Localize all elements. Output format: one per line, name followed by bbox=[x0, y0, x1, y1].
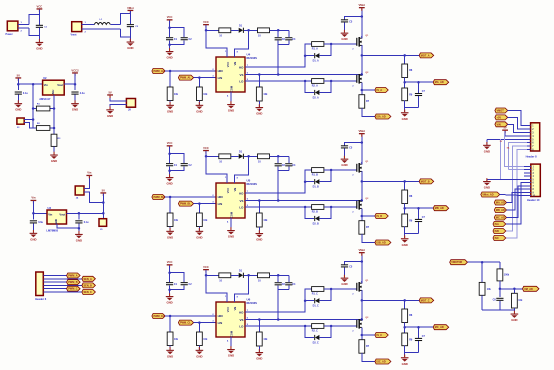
svg-text:GND: GND bbox=[256, 357, 262, 361]
wire J8 pin5 stub bbox=[524, 178, 531, 180]
regulator U3 78M05 bbox=[47, 210, 67, 224]
svg-text:VCC: VCC bbox=[167, 15, 173, 19]
ground bbox=[106, 107, 114, 118]
svg-text:GND: GND bbox=[30, 237, 36, 241]
svg-text:GND: GND bbox=[228, 354, 234, 358]
wire J8 pin4 stub bbox=[524, 175, 531, 177]
svg-text:D1_C: D1_C bbox=[313, 305, 319, 308]
svg-text:IS_B: IS_B bbox=[377, 215, 383, 218]
power VMOT A bbox=[359, 3, 366, 11]
gate driver U6 IR2103S bbox=[216, 302, 245, 337]
wire J9 pin1 to power bbox=[110, 96, 126, 102]
wire phase output bbox=[362, 299, 419, 301]
wire Vin to pin3 bbox=[508, 124, 527, 132]
wire J6 pin2 bbox=[43, 278, 82, 280]
svg-text:+5V: +5V bbox=[497, 116, 502, 119]
svg-text:10k: 10k bbox=[263, 338, 268, 341]
inductor L1 bbox=[94, 22, 110, 24]
svg-text:PWM_AL: PWM_AL bbox=[180, 77, 191, 80]
svg-text:GND: GND bbox=[484, 186, 490, 190]
wire J9 pin2 to gnd bbox=[110, 105, 126, 110]
svg-text:GND: GND bbox=[341, 37, 347, 41]
svg-text:100k: 100k bbox=[504, 274, 510, 277]
wire sense out bbox=[362, 234, 375, 242]
svg-text:IS_A: IS_A bbox=[377, 89, 383, 92]
wire gate high bbox=[324, 43, 357, 45]
gate driver U4 IR2103S bbox=[216, 57, 245, 92]
wire ADJ pin down bbox=[53, 95, 55, 134]
wire VS bbox=[245, 74, 362, 76]
ground bbox=[401, 109, 409, 120]
svg-text:10k: 10k bbox=[487, 288, 492, 291]
svg-text:10k: 10k bbox=[174, 219, 179, 222]
node rail bbox=[18, 83, 42, 85]
svg-text:VMot: VMot bbox=[359, 129, 366, 133]
diode D63 gate low bbox=[305, 326, 314, 338]
transistor Q41 high side bbox=[352, 36, 363, 50]
svg-text:0.1u: 0.1u bbox=[84, 221, 89, 224]
ground bbox=[341, 275, 349, 286]
port SC sense bbox=[362, 334, 375, 336]
svg-text:GND: GND bbox=[196, 235, 202, 239]
svg-text:ADJ: ADJ bbox=[52, 89, 55, 94]
port VMOT to header bbox=[495, 108, 508, 113]
port VMOT sense in bbox=[450, 260, 468, 265]
svg-text:HIN: HIN bbox=[218, 314, 223, 318]
svg-text:PWM_CH: PWM_CH bbox=[154, 315, 165, 318]
svg-text:GND: GND bbox=[228, 235, 234, 239]
svg-text:GND: GND bbox=[196, 354, 202, 358]
wire J1 pin2 bbox=[18, 27, 29, 29]
svg-text:MC_AD: MC_AD bbox=[435, 326, 444, 329]
capacitor C40 bbox=[496, 298, 503, 301]
svg-text:GND: GND bbox=[256, 238, 262, 242]
svg-text:R1_B: R1_B bbox=[312, 173, 318, 176]
svg-text:GND: GND bbox=[228, 109, 234, 113]
capacitor C46 filter bbox=[418, 82, 420, 93]
diode D62 gate high bbox=[305, 300, 314, 302]
wire C3 to gnd bbox=[17, 95, 19, 104]
wire J4 pin2 bbox=[84, 192, 103, 203]
svg-text:AMS1117: AMS1117 bbox=[39, 97, 51, 101]
capacitor C50 bbox=[166, 163, 173, 166]
wire loop to C1 bbox=[29, 14, 39, 24]
wire VS bbox=[245, 200, 362, 202]
svg-text:PWM_BL: PWM_BL bbox=[180, 203, 191, 206]
ground bbox=[166, 228, 174, 239]
resistor R58 sense bbox=[359, 221, 365, 235]
connector J3 bbox=[17, 118, 24, 124]
svg-text:VB: VB bbox=[233, 307, 237, 311]
port SB sense bbox=[362, 215, 375, 217]
wire vcc cap net bbox=[169, 20, 171, 37]
wire J6 pin4 bbox=[43, 284, 82, 286]
wire to pin9 bbox=[507, 192, 525, 202]
svg-text:ISC_AD: ISC_AD bbox=[377, 361, 386, 364]
svg-text:VCC: VCC bbox=[226, 62, 230, 68]
svg-text:LM78M05: LM78M05 bbox=[46, 229, 58, 233]
wire source sense bbox=[361, 82, 363, 94]
svg-text:MC_AD: MC_AD bbox=[496, 217, 505, 220]
wire gate low bbox=[324, 325, 357, 327]
wire phase output bbox=[362, 54, 419, 56]
resistor R610 divider bottom bbox=[402, 333, 408, 346]
power VCC filter C bbox=[167, 260, 173, 268]
capacitor C40 bbox=[166, 37, 173, 40]
wire R30 node bbox=[499, 281, 501, 297]
capacitor C64 bus bbox=[361, 260, 364, 263]
svg-text:0.1u: 0.1u bbox=[23, 92, 28, 95]
capacitor C41 bbox=[181, 37, 188, 40]
port SB AD bbox=[375, 240, 391, 245]
resistor R30 bbox=[497, 269, 503, 281]
svg-text:R1_A: R1_A bbox=[312, 47, 318, 50]
port SA2 bbox=[493, 222, 506, 227]
port SEN_C bbox=[82, 290, 96, 295]
svg-text:IR2103S: IR2103S bbox=[247, 56, 258, 60]
port SA AD bbox=[375, 114, 391, 119]
wire VCC pin feed bbox=[206, 270, 227, 302]
transistor Q61 high side bbox=[352, 281, 363, 295]
wire C6 gnd bbox=[78, 223, 80, 234]
power VCC J4 bbox=[86, 171, 92, 179]
wire VS bbox=[245, 319, 362, 321]
wire cap bottom rail to VS bbox=[278, 170, 289, 172]
svg-text:GND: GND bbox=[402, 362, 408, 366]
wire VMOT AD to pin10 bbox=[500, 195, 524, 196]
resistor R41 pulldown HIN bbox=[169, 70, 172, 73]
resistor R3 bbox=[51, 134, 57, 146]
svg-text:VM_AD: VM_AD bbox=[524, 288, 533, 291]
svg-text:VMot: VMot bbox=[359, 248, 366, 252]
capacitor C61 bbox=[181, 282, 188, 285]
svg-text:VCC: VCC bbox=[203, 20, 209, 24]
svg-text:MOT_B: MOT_B bbox=[421, 180, 430, 183]
port VMOT AD out bbox=[523, 286, 540, 291]
svg-text:Vout: Vout bbox=[57, 83, 63, 87]
svg-text:GND: GND bbox=[167, 235, 173, 239]
connector J4 bbox=[75, 186, 84, 195]
svg-text:MA_AD: MA_AD bbox=[435, 81, 444, 84]
resistor R68 sense bbox=[359, 340, 365, 354]
svg-text:HO: HO bbox=[239, 310, 244, 314]
svg-text:VMOTOR: VMOTOR bbox=[451, 261, 462, 264]
connector J2 motor supply bbox=[72, 22, 82, 32]
wire HO bbox=[245, 170, 312, 193]
svg-text:VMot: VMot bbox=[359, 3, 366, 7]
wire J6 pin1 bbox=[43, 275, 66, 277]
wire bus to J8 pin2 bbox=[509, 169, 524, 171]
capacitor C3 bbox=[15, 92, 22, 95]
capacitor C54 bus bbox=[361, 141, 364, 144]
port MB AD bbox=[433, 206, 449, 211]
svg-text:VB: VB bbox=[233, 62, 237, 66]
svg-text:IR2103S: IR2103S bbox=[247, 182, 258, 186]
wire LO bbox=[245, 325, 312, 327]
wire divider gnd rail bbox=[482, 309, 514, 311]
port AD C bbox=[494, 215, 506, 220]
power VCC input bbox=[15, 73, 21, 81]
svg-text:VCC: VCC bbox=[203, 265, 209, 269]
svg-text:VCC: VCC bbox=[226, 307, 230, 313]
ground bbox=[256, 104, 264, 115]
wire J7 pin4 stub bbox=[527, 135, 531, 137]
power VCC filter A bbox=[167, 15, 173, 23]
wire bus pin8 strand bbox=[506, 150, 527, 238]
wire J8 pin10 stub bbox=[524, 195, 531, 197]
svg-text:10k: 10k bbox=[518, 299, 523, 302]
power VCC filter B bbox=[167, 141, 173, 149]
wire J3 pin1 bbox=[24, 119, 33, 121]
port MA AD bbox=[433, 80, 449, 85]
resistor R32 bbox=[513, 289, 515, 294]
wire phase output bbox=[362, 180, 419, 182]
wire VCC to rail bbox=[17, 79, 19, 91]
svg-text:Vin: Vin bbox=[87, 171, 91, 175]
resistor R52 pulldown LIN bbox=[198, 202, 201, 205]
wire Vout bbox=[67, 212, 104, 214]
ground bbox=[341, 156, 349, 167]
resistor R61 pulldown HIN bbox=[169, 315, 172, 318]
svg-text:VMot_AD: VMot_AD bbox=[482, 194, 493, 197]
wire divider bottom rail bbox=[404, 101, 406, 113]
ground bbox=[196, 228, 204, 239]
wire HO bbox=[245, 289, 312, 312]
ground bbox=[256, 230, 264, 241]
svg-text:ISB_AD: ISB_AD bbox=[377, 242, 386, 245]
svg-text:VCC2: VCC2 bbox=[71, 68, 79, 72]
port GND to header bbox=[495, 122, 508, 127]
svg-text:VCC: VCC bbox=[226, 188, 230, 194]
svg-text:VCC: VCC bbox=[167, 141, 173, 145]
wire 5V net vertical bbox=[102, 194, 104, 219]
resistor R53 bbox=[206, 155, 219, 157]
power VCC bootstrap C bbox=[203, 265, 209, 273]
wire to R30 bbox=[499, 262, 501, 269]
power VCC J9 bbox=[107, 90, 113, 98]
wire LIN bbox=[194, 322, 216, 324]
wire drain to VMOT bbox=[361, 253, 363, 283]
wire COM to gnd bbox=[230, 218, 232, 230]
resistor R64 bbox=[258, 273, 270, 278]
svg-text:R2_A: R2_A bbox=[312, 85, 318, 88]
ground bbox=[486, 139, 488, 145]
svg-text:GND: GND bbox=[341, 163, 347, 167]
wire J3 pin2 bbox=[24, 123, 33, 129]
svg-text:Vmot: Vmot bbox=[71, 34, 77, 37]
capacitor C2 bbox=[127, 24, 134, 27]
capacitor C60 bbox=[166, 282, 173, 285]
port PWM C low bbox=[178, 320, 193, 325]
wire HIN bbox=[165, 315, 216, 317]
wire divider node bbox=[404, 323, 406, 334]
wire bus strand gnd link bbox=[499, 139, 501, 179]
power 5V mini bbox=[502, 126, 508, 134]
port PWM B low bbox=[178, 201, 193, 206]
port PWM_A bbox=[67, 273, 81, 278]
svg-text:GND: GND bbox=[107, 114, 113, 118]
transistor Q52 low side bbox=[352, 199, 363, 213]
resistor R47 gate low bbox=[312, 79, 324, 84]
svg-text:Header 8: Header 8 bbox=[526, 154, 538, 158]
ground J8 bbox=[487, 178, 524, 180]
svg-text:COM: COM bbox=[229, 212, 233, 218]
svg-text:GND: GND bbox=[511, 318, 517, 322]
ground bbox=[71, 100, 79, 111]
svg-text:PWM_BH: PWM_BH bbox=[154, 196, 165, 199]
connector J7 header8 bbox=[531, 123, 540, 151]
transistor Q51 high side bbox=[352, 162, 363, 176]
power 3.3V output bbox=[71, 68, 79, 76]
wire divider top bbox=[404, 181, 406, 190]
wire C4 to gnd bbox=[74, 95, 76, 104]
svg-text:MOT_C: MOT_C bbox=[421, 299, 430, 302]
port SEN_A bbox=[82, 276, 96, 281]
svg-text:LIN: LIN bbox=[218, 321, 223, 325]
resistor R69 divider top bbox=[402, 309, 408, 323]
svg-text:5V: 5V bbox=[503, 126, 506, 130]
wire J6 pin6 bbox=[43, 291, 82, 293]
wire LO bbox=[245, 206, 312, 208]
wire source sense bbox=[361, 208, 363, 220]
svg-text:D1_A: D1_A bbox=[313, 60, 319, 63]
resistor R59 divider top bbox=[402, 190, 408, 204]
resistor R55 gate high bbox=[312, 168, 324, 173]
svg-text:HIN: HIN bbox=[218, 195, 223, 199]
svg-text:PWM_AH: PWM_AH bbox=[154, 70, 165, 73]
svg-text:GND: GND bbox=[15, 108, 21, 112]
resistor R410 divider bottom bbox=[402, 88, 408, 101]
wire VCC pin feed bbox=[206, 25, 227, 57]
wire Vout bbox=[64, 83, 75, 85]
capacitor C6 bbox=[78, 213, 80, 219]
capacitor C43 bootstrap bbox=[288, 30, 290, 37]
wire cap bottom rail to VS bbox=[278, 44, 289, 46]
svg-text:HO: HO bbox=[239, 191, 244, 195]
capacitor C66 filter bbox=[418, 327, 420, 338]
resistor R43 bbox=[206, 29, 219, 31]
svg-text:R2_B: R2_B bbox=[312, 211, 318, 214]
svg-text:GND: GND bbox=[484, 149, 490, 153]
svg-text:U3: U3 bbox=[48, 206, 52, 210]
capacitor C63 bootstrap bbox=[288, 275, 290, 282]
wire J6 pin5 bbox=[43, 288, 66, 290]
resistor R62 pulldown LIN bbox=[198, 321, 201, 324]
connector J1 power input bbox=[7, 21, 18, 31]
port 5V to header bbox=[495, 115, 508, 120]
svg-text:MB_AD: MB_AD bbox=[435, 207, 444, 210]
svg-text:GND: GND bbox=[166, 301, 172, 305]
wire J2 pin1 bbox=[82, 23, 95, 25]
wire J7 pin8 stub bbox=[527, 149, 531, 151]
power VMOT bbox=[127, 6, 134, 14]
capacitor C52 bootstrap bbox=[277, 156, 279, 163]
svg-text:VCC: VCC bbox=[37, 4, 43, 8]
wire J7 pin1 stub bbox=[527, 125, 531, 127]
svg-text:D2_B: D2_B bbox=[313, 222, 319, 225]
wire to pin8 bbox=[507, 189, 525, 210]
svg-text:5V: 5V bbox=[17, 73, 20, 77]
resistor R49 divider top bbox=[402, 64, 408, 78]
svg-text:ISA_AD: ISA_AD bbox=[377, 116, 386, 119]
wire feedback left leg bbox=[32, 84, 34, 128]
wire J7 pin5 stub bbox=[527, 138, 531, 140]
wire GND row bbox=[487, 138, 527, 140]
gate driver U5 IR2103S bbox=[216, 183, 245, 218]
wire bus pin6 strand bbox=[509, 143, 527, 170]
svg-text:VCC: VCC bbox=[167, 260, 173, 264]
resistor R44 bbox=[258, 28, 270, 33]
resistor R46 VS bleeder bbox=[258, 75, 260, 88]
wire to pin7 bbox=[507, 186, 525, 218]
ground bbox=[166, 102, 174, 113]
port SC AD bbox=[375, 359, 391, 364]
port AD A bbox=[494, 200, 506, 205]
power VMOT C bbox=[359, 248, 366, 256]
svg-text:GND: GND bbox=[55, 219, 58, 225]
svg-text:U2: U2 bbox=[43, 76, 47, 80]
svg-text:PWM_B: PWM_B bbox=[68, 281, 78, 284]
ground bbox=[196, 347, 204, 358]
power VCC bootstrap A bbox=[203, 20, 209, 28]
wire gate high bbox=[324, 169, 357, 171]
svg-text:MB_AD: MB_AD bbox=[496, 209, 505, 212]
port PWM A high bbox=[152, 69, 165, 74]
connector J5 bbox=[99, 219, 107, 227]
wire LIN bbox=[194, 203, 216, 205]
port SA sense bbox=[362, 89, 375, 91]
port PWM C high bbox=[152, 314, 165, 319]
svg-text:LIN: LIN bbox=[218, 202, 223, 206]
wire COM to gnd bbox=[230, 92, 232, 104]
port SB2 bbox=[493, 229, 506, 234]
wire J7 pin3 stub bbox=[527, 131, 531, 133]
ground bbox=[196, 102, 204, 113]
wire VMot to pin1 bbox=[508, 111, 527, 126]
svg-text:GND: GND bbox=[127, 46, 133, 50]
svg-text:IS_C: IS_C bbox=[377, 334, 383, 337]
svg-text:GND: GND bbox=[256, 112, 262, 116]
wire J2 pin2 bbox=[82, 28, 121, 30]
resistor R1 bbox=[33, 108, 36, 110]
svg-text:Vin: Vin bbox=[48, 213, 52, 217]
wire 5V to pin4 bbox=[505, 131, 527, 136]
svg-text:PWM_C: PWM_C bbox=[68, 288, 78, 291]
wire node out bbox=[500, 288, 523, 290]
wire divider bottom rail bbox=[404, 227, 406, 239]
ground bbox=[227, 346, 235, 357]
ground bbox=[75, 231, 83, 242]
wire C2 bottom bbox=[129, 27, 131, 42]
svg-text:Header 6: Header 6 bbox=[35, 297, 47, 301]
svg-text:VCC: VCC bbox=[203, 146, 209, 150]
svg-text:R1_C: R1_C bbox=[312, 292, 318, 295]
ground bbox=[166, 347, 174, 358]
svg-text:VMOT: VMOT bbox=[497, 110, 505, 113]
ground bbox=[401, 354, 409, 365]
resistor R31 parallel bbox=[481, 262, 483, 282]
svg-text:10k: 10k bbox=[174, 338, 179, 341]
wire VB pin feed bbox=[235, 156, 249, 183]
resistor R56 VS bleeder bbox=[258, 201, 260, 214]
port SEN_B bbox=[82, 283, 96, 288]
resistor R65 gate high bbox=[312, 287, 324, 292]
wire phase rail bbox=[361, 290, 363, 320]
svg-text:ISB: ISB bbox=[495, 230, 499, 233]
diode D41 bbox=[239, 28, 244, 33]
wire C1 bottom bbox=[38, 28, 40, 42]
ground bbox=[50, 152, 58, 163]
